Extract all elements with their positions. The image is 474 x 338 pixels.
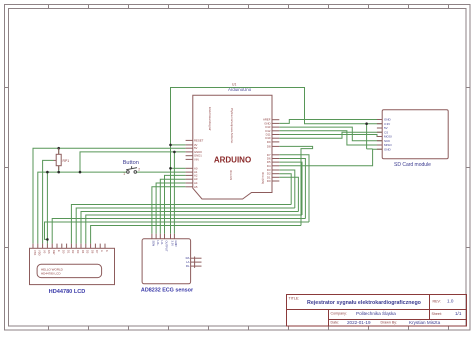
svg-text:U1: U1 [232,82,236,86]
svg-text:LO-: LO- [160,241,164,246]
svg-text:TITLE:: TITLE: [289,297,300,301]
svg-text:ArduinoUno: ArduinoUno [228,87,252,92]
wire D4 long row to SD GND pin8 [279,149,382,166]
svg-text:1/1: 1/1 [455,311,462,316]
wire bus L4 to LCD pin12 [86,215,302,244]
svg-text:RS: RS [47,250,51,254]
wire A2 down to ECG pin4 [165,175,186,233]
potentiometer RP1 [54,148,70,170]
svg-text:Elektrokardiograf: Elektrokardiograf [208,107,212,131]
svg-text:VDD: VDD [38,250,42,256]
wire LCD pin4 vertical below junction [46,239,48,243]
svg-text:VSS: VSS [33,250,37,255]
svg-text:D6: D6 [90,250,94,254]
svg-text:VIN: VIN [194,157,199,161]
svg-text:3.3V: 3.3V [170,241,174,247]
wire D7 staircase to bus L6 [279,155,309,222]
wire D12 to SD MISO [279,131,382,145]
wire GND branch down to ECG pin6 [173,152,175,234]
wire 3V3 junction to pin8 row [367,148,373,150]
svg-text:D0: D0 [267,179,271,183]
wire bus L6 to LCD pin4 jog [45,222,310,239]
svg-text:SDN: SDN [152,241,156,247]
svg-text:1: 1 [123,172,125,176]
wire D1 staircase to bus L3 [279,177,298,211]
wire D6 staircase to bus L5 [279,159,305,219]
op-amp: none; Arduino U1 [186,82,280,199]
svg-text:SD Card module: SD Card module [394,162,431,168]
wire 3V row from Arduino 3V pin [171,144,186,146]
Arduino left pin stubs [186,140,193,186]
svg-text:D2: D2 [71,250,75,254]
wire D13 to SD SCK [279,127,382,141]
wire bus L5 to LCD pin5 [52,219,305,244]
Arduino right pin stubs [272,120,279,181]
LCD pin stubs [33,244,105,249]
HD44780 LCD [30,244,115,295]
Arduino right pin labels [263,118,271,183]
svg-text:LO+: LO+ [156,241,160,247]
ECG right pin stubs [191,257,202,268]
svg-text:D0: D0 [62,250,66,254]
wire pot wiper to LCD pin3 rail [43,160,54,243]
svg-text:GND: GND [174,241,178,247]
title block [287,295,467,327]
junction dots [46,122,368,240]
svg-text:D9: D9 [267,140,271,144]
button S1 [123,160,140,176]
wire pot bottom lead [58,166,60,172]
svg-text:RL: RL [186,264,190,268]
svg-text:REV:: REV: [433,299,441,303]
wire A5 down to ECG pin1 [152,187,186,234]
ECG top pin labels (vertical tiny) [152,241,179,252]
svg-text:D5: D5 [86,250,90,254]
svg-text:RW: RW [52,250,56,255]
wire bus L2 to LCD pin10 [76,208,295,244]
Arduino outline [193,95,272,199]
wire D3 staircase to bus L2 [279,170,295,208]
wire bus L3 to LCD pin11 [81,212,298,244]
svg-text:Krystian Miszta: Krystian Miszta [409,320,441,325]
svg-text:1.0: 1.0 [447,299,454,304]
wire 5V row Arduino to LCD pin1 rail [33,148,186,243]
SD Card module U2 [377,110,448,168]
svg-text:OUTPUT: OUTPUT [164,241,168,252]
wire A4 down to ECG pin2 [156,183,186,234]
svg-text:A: A [100,250,104,252]
svg-text:HD44780 LCD: HD44780 LCD [41,271,61,275]
svg-text:D3: D3 [76,250,80,254]
svg-text:Rejestrator sygnału elektrokar: Rejestrator sygnału elektrokardiograficz… [307,300,422,306]
wire net 3V3 top rail to SD 3.3V [171,88,383,145]
svg-text:Drawn By:: Drawn By: [381,321,398,325]
svg-text:AD8232 ECG sensor: AD8232 ECG sensor [141,288,194,294]
svg-text:Button: Button [123,160,139,166]
svg-text:D1: D1 [66,250,70,254]
svg-text:RP1: RP1 [63,159,70,163]
wire pot RP1 top lead connection [58,148,60,154]
wire D2 staircase to bus L1 [279,174,291,205]
Arduino left pin labels [194,138,204,188]
wire SD GND branch from 3.3V line junction [366,124,368,149]
svg-text:Politechnika Śląska: Politechnika Śląska [356,309,396,316]
svg-text:Uno (R3): Uno (R3) [261,172,265,184]
svg-text:Company:: Company: [331,312,347,316]
svg-text:HD44780 LCD: HD44780 LCD [49,289,86,295]
svg-text:Date:: Date: [331,321,340,325]
AD8232 ECG sensor U3 [141,234,202,294]
wire D10 to SD CS [279,132,382,138]
svg-text:2: 2 [138,168,140,172]
wire A3 down to ECG pin3 [160,179,185,234]
svg-text:K: K [105,250,109,252]
svg-text:D4: D4 [81,250,85,254]
wire GND0 row from Arduino to left [80,152,186,172]
wire button row: LCD pin2 rail, pot bottom, GND, button, A1 [38,172,186,244]
wire A0 to 3V3 vertical [171,167,186,169]
svg-text:Sheet:: Sheet: [432,312,442,316]
wire D5 staircase to bus L4 [279,162,302,215]
svg-text:D8: D8 [267,144,271,148]
wire 3V3 branch down to ECG pin5 [170,145,172,234]
svg-text:GND: GND [384,147,392,151]
svg-text:E: E [57,250,61,252]
wire bus L1 to LCD pin9 [71,205,291,244]
svg-text:A5: A5 [194,185,198,189]
svg-text:RESET: RESET [194,138,204,142]
svg-text:Uno R3: Uno R3 [229,170,233,181]
wire Arduino GND right to SD pin1 GND [279,120,382,124]
wire bus L7 to LCD pin13 [91,226,301,244]
wire LCD pin4 rail from button row [46,172,48,239]
LCD display area [37,264,102,277]
LCD pin labels (vertical tiny) [33,250,109,256]
svg-text:D7: D7 [95,250,99,254]
svg-text:V0: V0 [42,250,46,254]
wire D11 to SD MOSI [279,135,382,137]
svg-text:2022-01-19: 2022-01-19 [347,320,371,325]
wire D8 jog down to bus L7 [279,146,312,225]
svg-text:Plytka rozwojowa Arduino: Plytka rozwojowa Arduino [230,108,234,144]
svg-text:ARDUINO: ARDUINO [214,156,251,165]
ECG top pin stubs [152,234,175,239]
